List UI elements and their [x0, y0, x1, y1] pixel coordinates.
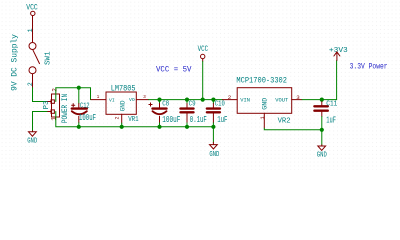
- svg-text:3: 3: [296, 94, 300, 101]
- wire C12 top: [78, 88, 80, 104]
- wire bottom rail: [56, 112, 214, 127]
- capacitor C9 bottom pin: [186, 114, 188, 123]
- capacitor C10 top plate: [207, 107, 220, 109]
- svg-text:C9: C9: [189, 101, 196, 109]
- junction C11 bottom: [320, 128, 324, 132]
- junction C10 bottom: [211, 125, 215, 129]
- pin VOUT of VR2: [292, 99, 302, 101]
- svg-text:100uF: 100uF: [79, 113, 96, 123]
- svg-text:VO: VO: [129, 97, 135, 103]
- wire C11 bottom: [321, 117, 323, 145]
- svg-text:2: 2: [51, 88, 58, 92]
- capacitor C9 bottom plate: [181, 111, 194, 113]
- switch SW1 lever: [33, 50, 40, 63]
- junction C10 top: [211, 98, 215, 102]
- pin GND of VR1: [121, 114, 123, 123]
- junction C9 bottom: [185, 125, 189, 129]
- regulator VR2 MCP1700-3302 body: [237, 88, 292, 114]
- svg-text:1: 1: [97, 94, 100, 100]
- capacitor C10 top pin: [212, 104, 214, 108]
- capacitor C8 bottom pin: [159, 116, 161, 123]
- capacitor C8 bottom arc: [153, 111, 167, 114]
- wire VCC drop: [202, 62, 204, 100]
- ground symbol (mid) stem: [212, 142, 214, 144]
- wire to GND mid: [212, 127, 214, 143]
- switch SW1 top contact circle: [29, 43, 36, 50]
- svg-text:1: 1: [51, 117, 58, 121]
- wire C12 bottom: [78, 123, 80, 127]
- junction C12 top: [77, 86, 81, 90]
- junction C11 top: [320, 98, 324, 102]
- connector P3 body: [52, 94, 60, 117]
- svg-text:0.1uF: 0.1uF: [190, 115, 207, 125]
- svg-text:1uF: 1uF: [326, 115, 336, 125]
- switch SW1 bottom contact circle: [29, 67, 36, 74]
- svg-text:P3: P3: [43, 101, 51, 109]
- svg-text:3.3V Power: 3.3V Power: [350, 62, 388, 72]
- wire SW1 to connector pin 2: [33, 88, 48, 102]
- connector pin square 2: [51, 100, 54, 103]
- capacitor C8 top pin: [159, 104, 161, 108]
- svg-text:SW1: SW1: [44, 51, 52, 65]
- wire VOUT to +3V3 corner: [302, 60, 337, 99]
- svg-text:C10: C10: [215, 101, 225, 109]
- switch SW1 pin 1: [32, 16, 34, 42]
- svg-text:GND: GND: [119, 100, 126, 111]
- junction C9 top: [185, 98, 189, 102]
- svg-text:VIN: VIN: [240, 96, 250, 103]
- pin 1 stub of P3: [47, 111, 51, 113]
- svg-text:VR1: VR1: [128, 116, 139, 124]
- svg-text:C12: C12: [80, 102, 90, 110]
- svg-text:VI: VI: [109, 97, 115, 103]
- pin 2 stub of P3: [47, 101, 51, 103]
- svg-text:GND: GND: [262, 98, 269, 110]
- junction C8 bottom: [157, 125, 161, 129]
- capacitor C10 bottom pin: [212, 114, 214, 123]
- svg-text:POWER IN: POWER IN: [62, 94, 70, 123]
- capacitor C10 bottom plate: [207, 111, 220, 113]
- wire C8 top: [159, 100, 161, 104]
- svg-text:VOUT: VOUT: [275, 96, 288, 103]
- pin VIN of VR2: [223, 99, 238, 101]
- svg-text:2: 2: [27, 82, 34, 86]
- capacitor C12 bottom arc: [72, 111, 87, 114]
- power symbol VCC (mid) stem: [202, 59, 204, 62]
- svg-text:VCC = 5V: VCC = 5V: [156, 65, 192, 75]
- svg-text:100uF: 100uF: [162, 115, 180, 125]
- capacitor C12 top pin: [78, 104, 80, 108]
- wire top-left rail: [56, 88, 91, 102]
- capacitor C9 top pin: [186, 104, 188, 108]
- pin GND of VR2: [263, 113, 265, 128]
- ground symbol (mid) triangle: [210, 145, 218, 149]
- svg-text:C8: C8: [162, 101, 169, 109]
- wire C11 top: [321, 100, 323, 102]
- svg-text:LM7805: LM7805: [111, 86, 136, 94]
- svg-text:9V DC Supply: 9V DC Supply: [11, 34, 20, 91]
- wire VR1 GND to rail: [121, 123, 123, 127]
- pin VI of VR1: [91, 99, 106, 101]
- svg-text:3: 3: [143, 94, 146, 100]
- wire C9 bottom: [186, 123, 188, 127]
- power symbol VCC (mid) circle: [201, 54, 205, 58]
- ground symbol (left) triangle: [29, 132, 37, 136]
- wire C10 bottom: [212, 123, 214, 127]
- regulator VR1 LM7805 body: [106, 92, 136, 114]
- junction C8 top: [157, 98, 161, 102]
- svg-text:2: 2: [228, 94, 232, 101]
- wire connector pin1 to GND: [33, 112, 48, 131]
- pin VO of VR1: [136, 99, 148, 101]
- svg-text:VR2: VR2: [278, 118, 291, 126]
- capacitor C11 bottom plate: [314, 109, 327, 111]
- svg-text:1: 1: [27, 28, 34, 32]
- capacitor C9 top plate: [181, 107, 194, 109]
- svg-text:2: 2: [115, 116, 121, 119]
- junction VCC drop: [201, 98, 205, 102]
- capacitor C8 top plate: [153, 107, 167, 109]
- capacitor C8 plus sign: [149, 103, 152, 106]
- capacitor C12 top plate: [72, 107, 87, 109]
- svg-text:GND: GND: [317, 152, 327, 160]
- wire C10 top: [212, 100, 214, 104]
- capacitor C11 bottom pin: [321, 112, 323, 117]
- svg-text:GND: GND: [209, 151, 219, 159]
- capacitor C12 plus sign: [72, 104, 75, 107]
- svg-text:GND: GND: [27, 138, 37, 146]
- svg-text:VCC: VCC: [198, 45, 209, 54]
- power symbol VCC (left) circle: [31, 11, 35, 15]
- ground symbol (right) triangle: [318, 146, 326, 150]
- connector pin square 1: [51, 110, 54, 113]
- switch SW1 pin 2: [32, 74, 34, 88]
- wire 5V rail: [149, 99, 223, 101]
- capacitor C11 top plate: [314, 105, 327, 107]
- svg-text:1uF: 1uF: [217, 115, 227, 125]
- junction VR1 GND: [120, 125, 124, 129]
- capacitor C12 bottom pin: [78, 116, 80, 123]
- ground symbol (left) stem: [32, 131, 34, 132]
- junction C12 bottom: [77, 125, 81, 129]
- wire C9 top: [186, 100, 188, 104]
- wire VR2 GND down and right: [264, 128, 322, 130]
- ground symbol (right) stem: [321, 145, 323, 146]
- capacitor C11 top pin: [321, 102, 323, 105]
- power symbol +3V3 arrow: [334, 52, 340, 61]
- wire C8 bottom: [159, 123, 161, 127]
- svg-text:C11: C11: [326, 100, 337, 108]
- svg-text:MCP1700-3302: MCP1700-3302: [236, 76, 287, 86]
